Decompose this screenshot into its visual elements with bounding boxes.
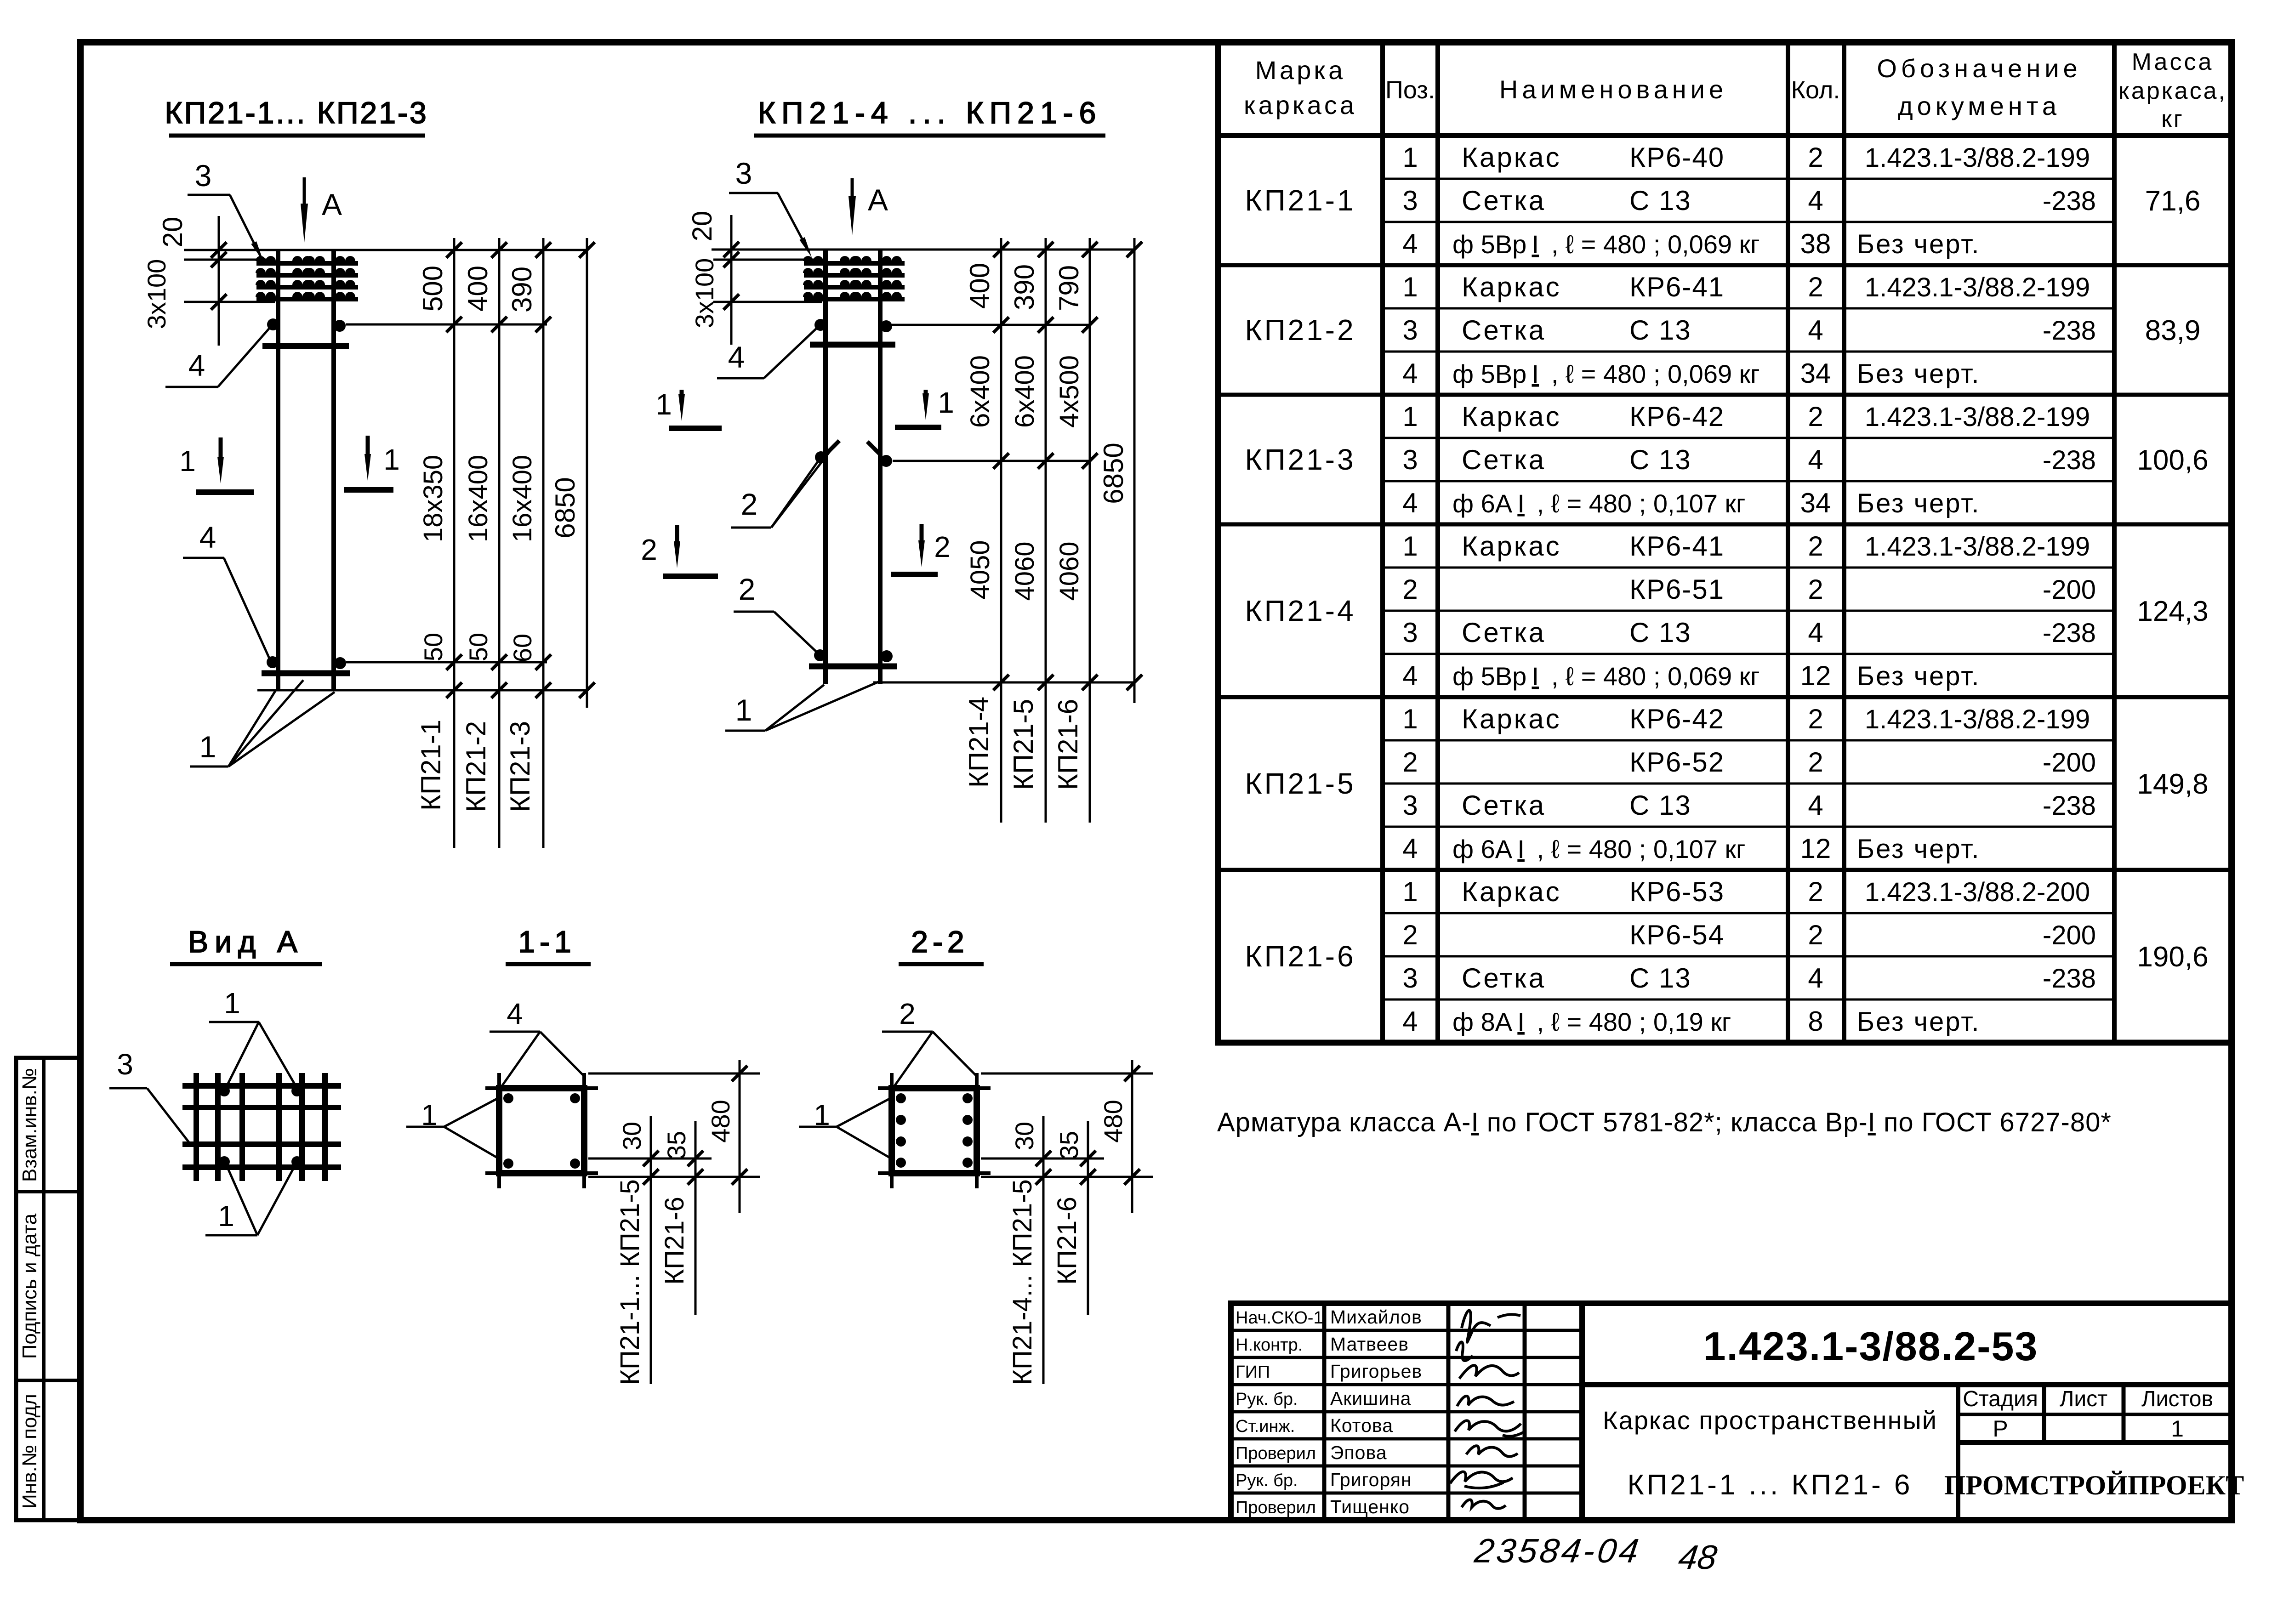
drawing 2 callout 2 upper [731, 444, 836, 528]
svg-text:1: 1 [1402, 704, 1418, 734]
svg-text:А: А [322, 187, 342, 221]
svg-text:КП21-6: КП21-6 [1052, 1197, 1082, 1285]
upper tie dots [267, 318, 346, 332]
svg-text:1: 1 [938, 386, 954, 419]
svg-text:12: 12 [1800, 660, 1831, 691]
view A callout 1 top [209, 987, 296, 1087]
svg-text:2: 2 [1808, 142, 1823, 173]
svg-text:КП21-3: КП21-3 [505, 721, 535, 812]
svg-text:КП21-5: КП21-5 [1245, 767, 1355, 800]
svg-text:Сетка: Сетка [1462, 963, 1546, 994]
svg-text:1: 1 [1402, 876, 1418, 907]
svg-text:3: 3 [1402, 963, 1418, 994]
mesh zone wires [256, 256, 358, 299]
svg-text:1.423.1-3/88.2-53: 1.423.1-3/88.2-53 [1703, 1323, 2038, 1369]
svg-text:ф 5Вр I , ℓ = 480 ; 0,069 к: ф 5Вр I , ℓ = 480 ; 0,069 кг [1452, 359, 1760, 388]
svg-text:2: 2 [1808, 876, 1823, 907]
svg-text:Сетка: Сетка [1462, 315, 1546, 346]
svg-text:КР6-42: КР6-42 [1629, 704, 1725, 734]
svg-text:Эпова: Эпова [1330, 1442, 1387, 1463]
svg-text:190,6: 190,6 [2137, 941, 2208, 973]
svg-text:КР6-42: КР6-42 [1629, 401, 1725, 432]
svg-text:С 13: С 13 [1629, 963, 1691, 994]
svg-text:КП21-1... КП21-5: КП21-1... КП21-5 [615, 1179, 645, 1385]
svg-text:КП21-1: КП21-1 [1245, 184, 1355, 217]
svg-text:Без черт.: Без черт. [1857, 229, 1980, 259]
svg-text:ф 8А I , ℓ = 480 ; 0,19 кг: ф 8А I , ℓ = 480 ; 0,19 кг [1452, 1007, 1731, 1036]
svg-text:2: 2 [934, 530, 951, 563]
svg-text:2: 2 [641, 533, 657, 566]
svg-text:3: 3 [1402, 185, 1418, 216]
cage left bar [823, 249, 828, 684]
svg-text:4: 4 [1402, 1006, 1418, 1037]
view A callout 3 [109, 1048, 189, 1143]
svg-text:2: 2 [1402, 574, 1418, 605]
svg-text:4060: 4060 [1054, 541, 1084, 601]
svg-text:КП21-6: КП21-6 [1053, 699, 1083, 790]
svg-text:Ст.инж.: Ст.инж. [1236, 1417, 1295, 1436]
svg-text:23584-04: 23584-04 [1472, 1532, 1644, 1570]
svg-text:390: 390 [507, 267, 537, 312]
svg-text:КП21-5: КП21-5 [1008, 699, 1039, 790]
svg-text:1.423.1-3/88.2-199: 1.423.1-3/88.2-199 [1865, 704, 2090, 734]
drawing 2 extension lines [712, 250, 1134, 682]
svg-text:4: 4 [188, 348, 205, 382]
svg-text:ф 6А I , ℓ = 480 ; 0,107 к: ф 6А I , ℓ = 480 ; 0,107 кг [1452, 835, 1745, 863]
svg-text:-200: -200 [2043, 575, 2096, 605]
svg-text:3х100: 3х100 [690, 258, 719, 329]
svg-text:-238: -238 [2043, 618, 2096, 648]
svg-text:Взам.инв.№: Взам.инв.№ [18, 1068, 41, 1182]
stadia list cells [1963, 1387, 2213, 1442]
svg-text:Рук. бр.: Рук. бр. [1236, 1471, 1298, 1490]
svg-text:2-2: 2-2 [911, 925, 968, 959]
svg-text:Сетка: Сетка [1462, 444, 1546, 475]
table mark and mass column values [1245, 184, 2208, 973]
svg-text:Каркас: Каркас [1462, 704, 1561, 734]
svg-text:Наименование: Наименование [1499, 75, 1727, 104]
svg-text:16х400: 16х400 [463, 455, 493, 542]
svg-text:КП21-4... КП21-5: КП21-4... КП21-5 [1008, 1179, 1037, 1385]
section 2-2 wedge leader 1 [799, 1098, 890, 1158]
svg-text:Каркас: Каркас [1462, 531, 1561, 562]
svg-text:КП21-2: КП21-2 [461, 721, 491, 812]
svg-text:КП21-4 ... КП21-6: КП21-4 ... КП21-6 [758, 96, 1102, 130]
section 2-2 square hoop [892, 1088, 977, 1173]
svg-text:Н.контр.: Н.контр. [1236, 1335, 1303, 1355]
svg-text:2: 2 [1808, 920, 1823, 950]
svg-text:кг: кг [2161, 106, 2184, 132]
drawing 2 dimension labels [964, 263, 1129, 601]
svg-text:20: 20 [157, 217, 188, 248]
cage right bar [878, 249, 883, 684]
drawing 2 section mark 1 right [895, 386, 954, 427]
svg-text:4: 4 [1402, 488, 1418, 518]
drawing title KP21-1...KP21-3 [165, 96, 428, 136]
svg-text:30: 30 [1010, 1122, 1039, 1150]
svg-text:Лист: Лист [2060, 1387, 2107, 1411]
svg-text:38: 38 [1800, 228, 1831, 259]
svg-text:Кол.: Кол. [1791, 76, 1840, 104]
svg-text:34: 34 [1800, 488, 1831, 518]
svg-text:ф 6А I , ℓ = 480 ; 0,107 к: ф 6А I , ℓ = 480 ; 0,107 кг [1452, 489, 1745, 518]
svg-text:-238: -238 [2043, 186, 2096, 216]
svg-text:3: 3 [1402, 315, 1418, 346]
svg-text:2: 2 [1808, 272, 1823, 302]
svg-text:ПРОМСТРОЙПРОЕКТ: ПРОМСТРОЙПРОЕКТ [1944, 1470, 2244, 1500]
svg-text:С 13: С 13 [1629, 617, 1691, 648]
svg-text:КП21-3: КП21-3 [1245, 443, 1355, 476]
handwritten archive number [1471, 1532, 1720, 1576]
svg-text:1: 1 [383, 443, 400, 476]
drawing 2 dimension lines [993, 238, 1142, 823]
svg-text:50: 50 [419, 633, 448, 661]
title block signature table [1231, 1303, 1582, 1520]
svg-text:2: 2 [1402, 747, 1418, 778]
svg-text:4: 4 [1808, 963, 1823, 994]
section 2-2 dimension labels [1010, 1100, 1127, 1159]
drawing 2 section mark 2 right [891, 524, 951, 574]
svg-text:Марка: Марка [1255, 56, 1345, 85]
svg-text:4: 4 [1808, 315, 1823, 346]
section 2-2 roof leader [882, 997, 977, 1087]
view A callout 1 bottom [205, 1164, 296, 1235]
svg-text:4060: 4060 [1010, 541, 1040, 601]
svg-text:Котова: Котова [1330, 1415, 1393, 1436]
svg-text:4х500: 4х500 [1054, 355, 1084, 428]
svg-text:2: 2 [1402, 920, 1418, 950]
svg-text:каркаса: каркаса [1244, 91, 1357, 119]
upper tie dots [814, 319, 892, 332]
view A mesh grid [182, 1073, 341, 1181]
svg-text:А: А [868, 183, 888, 217]
svg-text:4: 4 [728, 340, 745, 374]
svg-text:Сетка: Сетка [1462, 617, 1546, 648]
svg-text:2: 2 [1808, 704, 1823, 734]
svg-text:Тищенко: Тищенко [1330, 1496, 1410, 1517]
drawing 1 callout 4 lower [183, 520, 270, 660]
svg-text:2: 2 [1808, 401, 1823, 432]
svg-text:34: 34 [1800, 358, 1831, 389]
svg-text:С 13: С 13 [1629, 315, 1691, 346]
svg-text:КР6-54: КР6-54 [1629, 920, 1725, 950]
svg-text:-238: -238 [2043, 445, 2096, 475]
svg-text:каркаса,: каркаса, [2118, 78, 2227, 104]
svg-text:1: 1 [655, 388, 672, 421]
svg-text:4: 4 [1808, 617, 1823, 648]
svg-text:6850: 6850 [1098, 443, 1129, 504]
svg-text:3: 3 [1402, 790, 1418, 821]
svg-text:Григорьев: Григорьев [1330, 1361, 1422, 1382]
section 2-2 title [899, 925, 984, 964]
svg-text:3: 3 [117, 1048, 133, 1081]
svg-text:1: 1 [1402, 142, 1418, 173]
drawing 1 view-A arrow [301, 177, 342, 243]
drawing 1 callout 4 upper [165, 327, 270, 387]
section 2-2 bar dots [896, 1093, 973, 1168]
svg-text:1.423.1-3/88.2-199: 1.423.1-3/88.2-199 [1865, 143, 2090, 173]
bar splice hooks [815, 441, 892, 467]
svg-text:КР6-41: КР6-41 [1629, 531, 1725, 562]
cage left bar [276, 249, 280, 690]
svg-text:КР6-53: КР6-53 [1629, 876, 1725, 907]
svg-text:1: 1 [1402, 401, 1418, 432]
svg-text:Каркас: Каркас [1462, 401, 1561, 432]
svg-text:Без черт.: Без черт. [1857, 359, 1980, 389]
svg-text:Стадия: Стадия [1963, 1387, 2038, 1411]
drawing 2 bottom callout 1 [725, 681, 879, 731]
svg-text:1: 1 [2171, 1416, 2184, 1442]
section 2-2 extension lines [981, 1073, 1153, 1177]
section 2-2 applicability labels [1008, 1179, 1082, 1385]
svg-text:1-1: 1-1 [518, 925, 575, 959]
svg-text:Сетка: Сетка [1462, 185, 1546, 216]
drawing 1 section mark 1 right [344, 436, 400, 490]
section 1-1 protruding bars [485, 1073, 598, 1188]
signatures squiggles [1450, 1311, 1523, 1509]
svg-text:Без черт.: Без черт. [1857, 1007, 1980, 1037]
svg-text:документа: документа [1898, 91, 2061, 120]
svg-text:1.423.1-3/88.2-199: 1.423.1-3/88.2-199 [1865, 402, 2090, 432]
drawing 2 callout 4 [717, 328, 817, 378]
svg-text:2: 2 [1808, 574, 1823, 605]
svg-text:1.423.1-3/88.2-199: 1.423.1-3/88.2-199 [1865, 532, 2090, 562]
svg-text:КП21-1 ... КП21- 6: КП21-1 ... КП21- 6 [1628, 1469, 1913, 1501]
svg-text:С 13: С 13 [1629, 444, 1691, 475]
svg-text:3: 3 [735, 156, 752, 190]
title block main area lines [1582, 1303, 2232, 1520]
svg-text:КП21-4: КП21-4 [1245, 594, 1355, 627]
svg-text:ГИП: ГИП [1236, 1363, 1270, 1382]
drawing 2 mark labels [963, 697, 1083, 790]
drawing 1 section mark 1 left [179, 437, 254, 492]
svg-text:71,6: 71,6 [2145, 185, 2201, 217]
svg-text:Григорян: Григорян [1330, 1469, 1412, 1490]
svg-text:6850: 6850 [550, 477, 581, 538]
lower tie bar [262, 670, 350, 676]
svg-text:35: 35 [662, 1131, 691, 1159]
svg-text:400: 400 [462, 266, 493, 312]
svg-text:35: 35 [1054, 1131, 1083, 1159]
svg-text:2: 2 [739, 572, 756, 606]
svg-text:КП21-4: КП21-4 [963, 697, 994, 788]
svg-text:4050: 4050 [965, 540, 995, 599]
svg-text:Проверил: Проверил [1236, 1498, 1316, 1517]
svg-text:4: 4 [1402, 228, 1418, 259]
svg-text:ф 5Вр I , ℓ = 480 ; 0,069 к: ф 5Вр I , ℓ = 480 ; 0,069 кг [1452, 230, 1760, 259]
svg-text:6х400: 6х400 [965, 355, 995, 428]
svg-text:Обозначение: Обозначение [1877, 54, 2081, 83]
drawing 1 extension lines [184, 250, 587, 690]
drawing 2 callout 3 [729, 156, 814, 259]
section 1-1 extension lines [588, 1073, 760, 1177]
svg-text:3: 3 [1402, 617, 1418, 648]
drawing 1 mark labels [416, 720, 535, 812]
svg-text:48: 48 [1676, 1538, 1720, 1576]
drawing 1 dimension lines [446, 238, 595, 848]
svg-text:16х400: 16х400 [507, 455, 537, 542]
svg-text:480: 480 [706, 1100, 735, 1142]
drawing title KP21-4...KP21-6 [754, 96, 1105, 136]
svg-text:КР6-51: КР6-51 [1629, 574, 1725, 605]
svg-text:480: 480 [1099, 1100, 1127, 1142]
svg-text:790: 790 [1053, 265, 1084, 311]
signature table texts [1236, 1306, 1422, 1517]
svg-text:Михайлов: Михайлов [1330, 1306, 1422, 1328]
svg-text:4: 4 [1402, 833, 1418, 864]
svg-text:Сетка: Сетка [1462, 790, 1546, 821]
organization logo [1944, 1470, 2244, 1500]
svg-text:Каркас: Каркас [1462, 876, 1561, 907]
view A title [170, 925, 322, 964]
svg-text:Без черт.: Без черт. [1857, 488, 1980, 518]
section 1-1 square hoop [499, 1088, 584, 1173]
specification table grid [1218, 42, 2232, 1043]
svg-text:-238: -238 [2043, 316, 2096, 346]
svg-text:Рук. бр.: Рук. бр. [1236, 1390, 1298, 1409]
drawing 1 bottom callout 1 [190, 680, 335, 767]
lower tie bar [809, 664, 897, 670]
svg-text:60: 60 [508, 634, 537, 662]
svg-text:4: 4 [507, 997, 523, 1030]
section 1-1 title [506, 925, 591, 964]
svg-text:1: 1 [735, 693, 752, 727]
svg-text:КР6-52: КР6-52 [1629, 747, 1725, 778]
svg-text:2: 2 [899, 997, 916, 1030]
svg-text:Каркас: Каркас [1462, 272, 1561, 302]
table body rows [1402, 142, 2096, 1037]
svg-text:1.423.1-3/88.2-200: 1.423.1-3/88.2-200 [1865, 877, 2090, 907]
drawing 1 small dim 20 / 3x100 [142, 216, 227, 346]
drawing 2 small dim 20 / 3x100 [687, 211, 739, 345]
drawing 2 section mark 2 left [641, 525, 718, 576]
svg-text:4: 4 [199, 520, 216, 554]
svg-text:1: 1 [218, 1199, 234, 1232]
svg-text:-200: -200 [2043, 920, 2096, 950]
svg-text:1: 1 [1402, 272, 1418, 302]
drawing 1 dimension labels [417, 266, 581, 662]
section 2-2 protruding bars [878, 1073, 991, 1188]
svg-text:Без черт.: Без черт. [1857, 661, 1980, 691]
section 1-1 dimension lines [643, 1060, 747, 1384]
svg-text:4: 4 [1402, 660, 1418, 691]
svg-text:1: 1 [1402, 531, 1418, 562]
svg-text:83,9: 83,9 [2145, 315, 2201, 346]
svg-text:3: 3 [195, 159, 212, 193]
svg-text:100,6: 100,6 [2137, 444, 2208, 476]
svg-text:ф 5Вр I , ℓ = 480 ; 0,069 к: ф 5Вр I , ℓ = 480 ; 0,069 кг [1452, 662, 1760, 691]
svg-text:КР6-41: КР6-41 [1629, 272, 1725, 302]
svg-text:4: 4 [1808, 185, 1823, 216]
svg-text:4: 4 [1808, 444, 1823, 475]
svg-text:2: 2 [741, 487, 758, 521]
svg-text:4: 4 [1402, 358, 1418, 389]
section 1-1 dimension labels [617, 1100, 735, 1159]
svg-text:КР6-40: КР6-40 [1629, 142, 1725, 173]
rebar class note [1217, 1107, 2112, 1137]
svg-text:2: 2 [1808, 747, 1823, 778]
drawing 2 callout 2 lower [734, 572, 817, 653]
svg-text:3: 3 [1402, 444, 1418, 475]
svg-text:Вид А: Вид А [188, 925, 304, 959]
section 1-1 bar dots [503, 1093, 580, 1169]
drawing 1 callout 3 [188, 159, 266, 263]
svg-text:Подпись и дата: Подпись и дата [18, 1213, 41, 1359]
svg-text:Листов: Листов [2141, 1387, 2213, 1411]
section 2-2 dimension lines [1036, 1060, 1140, 1384]
table header texts [1244, 49, 2227, 132]
svg-text:Каркас: Каркас [1462, 142, 1561, 173]
svg-text:Инв.№ подл: Инв.№ подл [18, 1394, 41, 1509]
svg-text:1.423.1-3/88.2-199: 1.423.1-3/88.2-199 [1865, 273, 2090, 302]
svg-text:18х350: 18х350 [418, 455, 448, 542]
title text [1603, 1406, 1937, 1501]
svg-text:Акишина: Акишина [1330, 1388, 1411, 1409]
upper tie bar [810, 342, 895, 348]
svg-text:-238: -238 [2043, 964, 2096, 994]
svg-text:Каркас пространственный: Каркас пространственный [1603, 1406, 1937, 1435]
svg-text:Матвеев: Матвеев [1330, 1334, 1409, 1355]
section 1-1 roof leader [490, 997, 584, 1087]
svg-text:КП21-6: КП21-6 [660, 1197, 689, 1285]
svg-text:Р: Р [1993, 1416, 2008, 1442]
lower tie dots [267, 656, 346, 669]
svg-text:Арматура класса А-I по ГОСТ 57: Арматура класса А-I по ГОСТ 5781-82*; кл… [1217, 1107, 2112, 1137]
svg-text:Проверил: Проверил [1236, 1444, 1316, 1463]
svg-text:1: 1 [179, 444, 196, 477]
svg-text:500: 500 [417, 266, 448, 312]
svg-text:КП21-6: КП21-6 [1245, 940, 1355, 973]
svg-text:30: 30 [617, 1122, 646, 1150]
svg-text:20: 20 [687, 211, 717, 242]
svg-text:Нач.СКО-1: Нач.СКО-1 [1236, 1308, 1323, 1328]
svg-text:390: 390 [1009, 264, 1040, 310]
svg-text:КП21-2: КП21-2 [1245, 313, 1355, 346]
svg-text:Без черт.: Без черт. [1857, 834, 1980, 864]
section 1-1 wedge leader 1 [406, 1098, 498, 1158]
svg-text:50: 50 [464, 633, 493, 661]
svg-text:КП21-1: КП21-1 [416, 720, 446, 811]
left margin attribute column [16, 1058, 80, 1520]
svg-text:КП21-1... КП21-3: КП21-1... КП21-3 [165, 96, 428, 130]
svg-text:С 13: С 13 [1629, 185, 1691, 216]
svg-text:12: 12 [1800, 833, 1831, 864]
svg-text:2: 2 [1808, 531, 1823, 562]
svg-text:1: 1 [199, 730, 216, 764]
svg-text:-200: -200 [2043, 748, 2096, 778]
cage right bar [331, 249, 336, 690]
drawing 2 section mark 1 left [655, 388, 722, 428]
mesh zone wires [803, 256, 905, 299]
svg-text:149,8: 149,8 [2137, 768, 2208, 800]
svg-text:124,3: 124,3 [2137, 596, 2208, 627]
document number [1703, 1323, 2038, 1369]
svg-text:400: 400 [964, 263, 995, 309]
section 1-1 applicability labels [615, 1179, 689, 1385]
svg-text:1: 1 [224, 987, 240, 1020]
svg-text:Поз.: Поз. [1385, 76, 1435, 104]
svg-text:8: 8 [1808, 1006, 1823, 1037]
svg-text:-238: -238 [2043, 791, 2096, 821]
svg-text:4: 4 [1808, 790, 1823, 821]
svg-text:3х100: 3х100 [142, 259, 171, 329]
svg-text:6х400: 6х400 [1010, 355, 1040, 428]
svg-text:Масса: Масса [2132, 49, 2214, 75]
svg-text:С 13: С 13 [1629, 790, 1691, 821]
lower tie dots [814, 649, 893, 662]
upper tie bar [262, 343, 349, 349]
drawing 2 view-A arrow [848, 178, 888, 235]
